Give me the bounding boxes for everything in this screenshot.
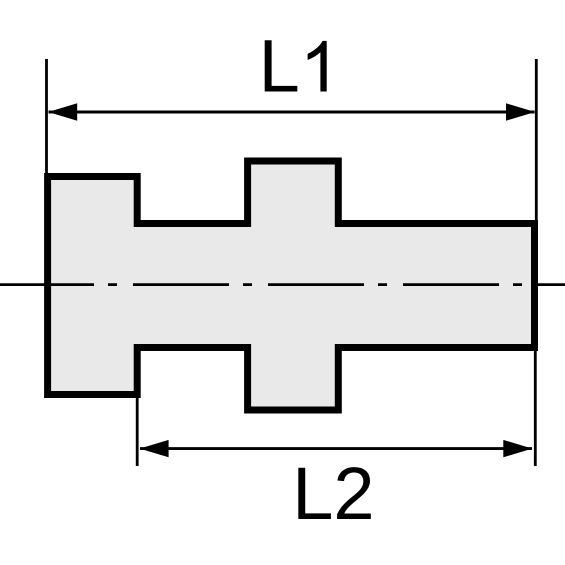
svg-text:L2: L2: [292, 452, 374, 535]
svg-text:L: L: [259, 25, 300, 108]
